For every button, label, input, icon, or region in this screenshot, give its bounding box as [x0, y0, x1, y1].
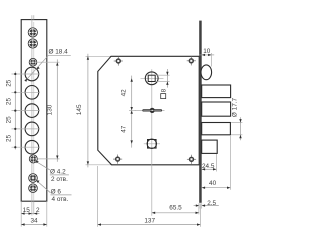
- svg-text:25: 25: [6, 79, 13, 87]
- svg-text:130: 130: [47, 104, 54, 115]
- screw head S6: [29, 184, 38, 193]
- svg-text:Ø 18.4: Ø 18.4: [49, 49, 69, 56]
- extension lines at bolt hole centers: [12, 74, 41, 147]
- bottom dims of plate: extensions: [20, 201, 22, 226]
- svg-text:65.5: 65.5: [169, 204, 182, 211]
- cylinder ellipse: [201, 65, 212, 80]
- screw head S3 (cylinder screw top): [29, 58, 37, 66]
- svg-text:15: 15: [23, 207, 31, 214]
- svg-text:145: 145: [76, 104, 83, 115]
- bolt hole B1: [25, 67, 39, 81]
- keyhole (double-bit key slot): [142, 108, 162, 113]
- svg-text:47: 47: [121, 125, 128, 133]
- dim chain line 25x4: [14, 72, 16, 150]
- svg-text:24.5: 24.5: [202, 163, 215, 170]
- dim 8 extensions: [156, 74, 170, 76]
- dim 24.5: [215, 154, 217, 172]
- plate vertical centerline: [31, 15, 33, 215]
- svg-text:2: 2: [36, 207, 40, 214]
- svg-text:Ø 6: Ø 6: [51, 188, 62, 195]
- dim Ø17.7: [231, 122, 242, 124]
- keyhole crosshair: [135, 109, 165, 111]
- svg-text:8: 8: [160, 88, 167, 92]
- screw head S1: [28, 28, 37, 37]
- dim 8 line: [166, 69, 168, 88]
- dim 130 extension lines: [37, 61, 60, 63]
- bolt hole B5: [25, 140, 39, 154]
- svg-text:25: 25: [6, 116, 13, 124]
- leader Ø4.2: [36, 161, 50, 170]
- dim 65.5: [198, 203, 200, 214]
- lower hole crosshair: [144, 143, 160, 145]
- bolt hole B2: [25, 86, 39, 100]
- lower square hole: [147, 139, 156, 148]
- dim 130 line: [56, 59, 58, 161]
- bolt 2: [202, 102, 231, 116]
- dim 137: [97, 166, 99, 227]
- svg-text:42: 42: [121, 89, 128, 97]
- corner hole BR: [187, 155, 196, 164]
- corner hole TL: [114, 56, 123, 65]
- spindle hole U: [145, 72, 158, 85]
- callout Ø18.4 leader: [25, 55, 48, 81]
- svg-text:137: 137: [144, 217, 155, 224]
- bolt 1: [202, 85, 231, 98]
- spindle square: [148, 75, 155, 81]
- bolt 3: [202, 123, 231, 135]
- svg-text:Ø 4.2: Ø 4.2: [50, 168, 66, 175]
- callout Ø18.4 underline: [49, 54, 71, 56]
- svg-text:25: 25: [6, 134, 13, 142]
- svg-text:2 отв.: 2 отв.: [51, 176, 68, 183]
- spindle hole crosshair: [141, 77, 164, 79]
- screw head S2: [28, 39, 37, 48]
- dim 145 arrows: [87, 56, 89, 59]
- dim 40: [229, 136, 231, 190]
- leader Ø6: [36, 180, 50, 192]
- dim 34 line: [21, 224, 47, 226]
- dim 42/47 line: [131, 76, 133, 148]
- dim 145 extension lines: [86, 55, 112, 57]
- dim 145 line: [87, 54, 89, 168]
- dim chain dots: [14, 73, 16, 148]
- svg-text:4 отв.: 4 отв.: [52, 196, 69, 203]
- plate second centerline (offset 2): [33, 15, 35, 19]
- corner hole BL: [113, 155, 122, 164]
- bolt hole B3: [25, 104, 39, 118]
- dim 15/2 line: [21, 213, 39, 215]
- bolt hole B4: [25, 122, 39, 136]
- dim 130 arrows: [56, 62, 58, 65]
- svg-text:2.5: 2.5: [207, 200, 216, 207]
- dim 2.5: [198, 203, 200, 208]
- svg-text:34: 34: [30, 217, 38, 224]
- lock body outline: [98, 56, 199, 165]
- svg-text:10: 10: [203, 48, 211, 55]
- screw head S5: [29, 174, 38, 183]
- svg-text:Ø 17.7: Ø 17.7: [232, 97, 239, 117]
- central vertical centerline: [151, 69, 153, 216]
- svg-text:25: 25: [6, 98, 13, 106]
- latch bolt 4: [202, 140, 218, 153]
- screw head S4 (cylinder screw bottom): [29, 155, 37, 163]
- svg-text:40: 40: [209, 180, 217, 187]
- faceplate (edge view): [199, 21, 202, 203]
- corner hole TR: [187, 56, 196, 65]
- strike plate outline: [21, 20, 47, 202]
